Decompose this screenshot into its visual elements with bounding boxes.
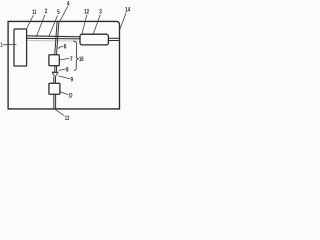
svg-text:5: 5: [57, 9, 60, 16]
vertical double pipe 4 (top segment): [55, 21, 57, 55]
lead line 5: [49, 15, 58, 37]
svg-text:12: 12: [84, 8, 89, 15]
svg-text:4: 4: [67, 1, 70, 8]
horizontal double pipe left segment 2: [27, 36, 81, 37]
lead line 6 with arrowhead: [59, 46, 64, 48]
lead line 12: [82, 15, 87, 35]
brace 16: [73, 41, 78, 71]
lead line 14: [119, 12, 126, 31]
lead line 9: [58, 76, 70, 79]
top-right box 12/3: [80, 34, 108, 45]
svg-text:2: 2: [45, 8, 48, 15]
box 10: [49, 83, 60, 94]
lead line 2: [36, 15, 45, 37]
lead line 1: [3, 44, 17, 46]
lead line 11: [27, 15, 34, 28]
pipe box10 to bottom 13: [53, 94, 55, 109]
svg-text:13: 13: [65, 115, 70, 120]
svg-text:8: 8: [66, 67, 69, 74]
svg-text:9: 9: [71, 77, 74, 84]
svg-text:11: 11: [32, 9, 36, 16]
left box (tank) 1/11: [14, 29, 27, 66]
svg-text:10: 10: [69, 93, 73, 100]
valve 9 (funnel symbol): [52, 72, 58, 74]
svg-text:3: 3: [99, 8, 102, 15]
svg-text:14: 14: [125, 7, 130, 14]
lead line 10: [60, 92, 68, 95]
pipe box7 to valve 9: [54, 66, 56, 72]
lead line 13: [55, 110, 64, 116]
pipe shadow line: [27, 40, 78, 42]
svg-text:1: 1: [1, 42, 3, 49]
lead line 3: [93, 15, 100, 35]
svg-text:6: 6: [64, 44, 67, 51]
svg-text:16: 16: [79, 56, 84, 63]
lead line 7: [60, 58, 70, 60]
outer circulation loop 14: [8, 21, 119, 109]
lead line 8: [59, 69, 66, 70]
box 7 (middle small box): [49, 55, 59, 66]
svg-text:7: 7: [70, 56, 73, 63]
lead line 4: [60, 6, 68, 21]
horizontal double pipe right segment: [108, 37, 119, 39]
pipe valve9 to box 10: [53, 77, 55, 83]
